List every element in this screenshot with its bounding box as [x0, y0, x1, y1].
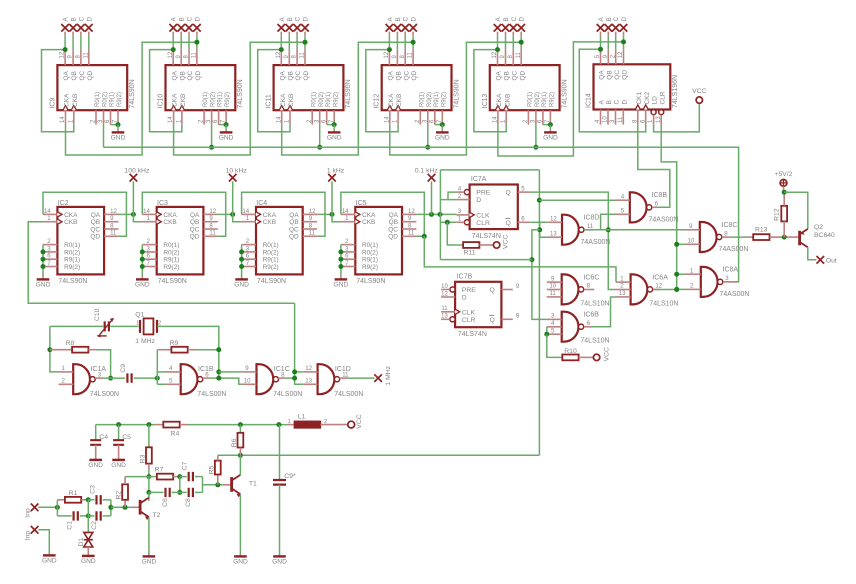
wire IC10 pin12 to connector	[172, 35, 174, 49]
wire IC8D output to IC8B.5 and IC8C.9	[584, 229, 685, 231]
junction R7-C7 node	[177, 474, 182, 479]
svg-text:QC: QC	[403, 70, 410, 80]
svg-text:74LS196N: 74LS196N	[672, 75, 679, 108]
ground IC12	[435, 125, 450, 142]
connector IC13-A	[494, 17, 502, 36]
svg-text:QD: QD	[411, 70, 418, 80]
nand gate IC8D 74AS00N	[547, 215, 610, 246]
svg-text:12: 12	[441, 291, 448, 297]
svg-text:13: 13	[441, 314, 448, 320]
wire C8 to base link	[203, 485, 214, 493]
svg-text:74AS00N: 74AS00N	[581, 239, 611, 246]
wire IC1C-IC1D feed riser from IC2 CKB	[295, 303, 304, 384]
junction input node	[55, 505, 60, 510]
svg-text:QC: QC	[187, 70, 194, 80]
nand gate IC6A 74LS10N	[616, 274, 679, 307]
ground IC13	[543, 125, 558, 142]
capacitor C4	[90, 425, 108, 460]
svg-text:6: 6	[521, 216, 525, 223]
svg-text:GND: GND	[88, 462, 103, 469]
svg-text:0.1 kHz: 0.1 kHz	[415, 168, 439, 175]
wire oscillator top link	[50, 325, 103, 327]
junction IC14 QD	[621, 39, 626, 44]
svg-text:D1: D1	[78, 538, 85, 547]
svg-text:R1: R1	[69, 490, 78, 497]
wire IC9 pin12 to connector	[64, 35, 66, 49]
wire IC7A Q to gates	[530, 192, 616, 289]
svg-text:R9(1): R9(1)	[110, 92, 116, 107]
wire IC4 reset pins tie	[241, 245, 243, 276]
svg-text:VCC: VCC	[692, 88, 706, 95]
svg-text:CKA: CKA	[496, 93, 503, 107]
wire C7 to base link	[202, 477, 204, 485]
wire IC11 pin12 to connector	[280, 35, 282, 49]
wire IC5 QD to IC6A input 1	[424, 236, 616, 282]
svg-text:11: 11	[83, 52, 89, 59]
svg-text:PRE: PRE	[462, 287, 476, 294]
svg-text:D: D	[411, 17, 418, 22]
junction IC9 QA	[63, 47, 68, 52]
wire IC5 QA output to IC7A CLK	[416, 213, 456, 215]
junction IC6A output net	[674, 287, 679, 292]
junction IC4 QA tap	[330, 212, 335, 217]
svg-text:R0(2): R0(2)	[263, 249, 279, 256]
svg-text:PRE: PRE	[476, 190, 490, 197]
wire T1 emitter to ground	[239, 495, 241, 553]
wire IC7A PRE-D tie	[448, 192, 456, 200]
svg-text:BC640: BC640	[814, 232, 835, 239]
svg-text:CKB: CKB	[396, 94, 403, 107]
wire IC13 pin3 to reset bus	[535, 125, 537, 148]
resistor R4	[156, 422, 187, 438]
svg-text:CKB: CKB	[288, 94, 295, 107]
wire IC11 pin3 to reset bus	[319, 125, 321, 148]
svg-text:C6: C6	[162, 498, 169, 507]
svg-text:QA: QA	[599, 70, 606, 80]
svg-text:A: A	[171, 17, 178, 22]
svg-text:IC6C: IC6C	[583, 274, 599, 281]
wire IC11 QD to IC10 CKA	[174, 42, 305, 155]
ground IC11	[327, 125, 342, 142]
svg-text:3: 3	[725, 275, 729, 282]
svg-text:IC1D: IC1D	[335, 366, 351, 373]
junction Q net at IC8D output row	[606, 227, 611, 232]
nand gate IC1A 74LS00N	[59, 364, 120, 398]
junction IC4 pin6	[239, 257, 244, 262]
svg-text:R0(1): R0(1)	[263, 242, 279, 249]
ground T2	[142, 553, 157, 565]
wire Q1 to right rail	[158, 326, 219, 378]
capacitor C10 trimmer	[94, 308, 114, 337]
connector IC12-D	[409, 17, 417, 36]
svg-text:C3: C3	[89, 485, 96, 494]
wire IC11 pin9 to connector	[288, 35, 290, 49]
svg-text:+5V/2: +5V/2	[775, 171, 793, 178]
svg-text:GND: GND	[233, 558, 248, 565]
wire IC2 QD to CKA feedback	[43, 192, 126, 236]
svg-text:R0(1): R0(1)	[163, 242, 179, 249]
svg-text:C: C	[187, 17, 194, 22]
junction IC6B input 5	[544, 332, 549, 337]
svg-text:100 kHz: 100 kHz	[124, 168, 150, 175]
svg-text:CKA: CKA	[280, 93, 287, 107]
junction IC5 pin7	[338, 264, 343, 269]
connector IC14-D	[620, 17, 628, 36]
svg-text:14: 14	[384, 116, 390, 123]
connector IC12-C	[401, 17, 409, 36]
junction IC10 pin7	[224, 122, 229, 127]
svg-text:74LS00N: 74LS00N	[334, 391, 363, 398]
svg-text:GND: GND	[36, 281, 51, 288]
wire reset bus from IC9 pin3 to IC8A output	[104, 147, 739, 282]
wire IC11 pin8 to connector	[296, 35, 298, 49]
svg-text:74LS90N: 74LS90N	[561, 79, 568, 108]
junction IC3 pin7	[140, 264, 145, 269]
svg-text:GND: GND	[234, 281, 249, 288]
svg-text:A: A	[387, 17, 394, 22]
svg-text:IC10: IC10	[158, 94, 165, 109]
svg-text:B: B	[71, 17, 78, 21]
svg-text:QC: QC	[190, 226, 200, 233]
connector IC12-A	[386, 17, 394, 36]
svg-text:14: 14	[276, 116, 282, 123]
wire IC10 pin8 to connector	[188, 35, 190, 49]
svg-text:T1: T1	[249, 480, 257, 487]
svg-text:QD: QD	[90, 234, 100, 241]
junction IC5 pin3	[338, 249, 343, 254]
svg-text:10 kHz: 10 kHz	[226, 168, 248, 175]
svg-text:12: 12	[276, 51, 282, 58]
capacitor C5	[113, 425, 131, 460]
junction collector node C6-C8	[177, 490, 182, 495]
svg-text:QC: QC	[289, 226, 299, 233]
svg-text:R12: R12	[774, 208, 781, 221]
svg-text:CLR: CLR	[476, 220, 490, 227]
svg-text:QB: QB	[71, 71, 78, 80]
svg-text:GND: GND	[435, 134, 450, 141]
wire IC2 QA to IC3 CKB	[133, 214, 142, 221]
svg-text:QA: QA	[190, 212, 200, 219]
connector IC9-C	[77, 17, 85, 36]
svg-text:12: 12	[655, 283, 662, 290]
junction IC1C output node	[292, 376, 297, 381]
wire T2 collector node	[148, 477, 150, 501]
power VCC R10	[593, 347, 610, 361]
wire IC14 pin12 to connector	[623, 35, 625, 49]
svg-text:VCC: VCC	[503, 235, 510, 249]
junction IC4 pin7	[239, 264, 244, 269]
svg-text:B: B	[503, 17, 510, 21]
wire IC9 pin9 to connector	[72, 35, 74, 49]
connector IC9-B	[69, 17, 77, 35]
svg-text:QD: QD	[388, 234, 398, 241]
wire rail to IC1C input 9	[219, 371, 242, 373]
junction mid node bottom	[86, 513, 91, 518]
svg-text:A: A	[495, 17, 502, 22]
junction IC13 QD	[519, 40, 524, 45]
svg-text:11: 11	[192, 52, 198, 59]
junction rail R6	[238, 422, 243, 427]
wire network output to T2 base	[111, 506, 131, 508]
svg-text:A: A	[599, 100, 606, 105]
svg-text:CKB: CKB	[163, 219, 176, 226]
svg-text:CKA: CKA	[172, 93, 179, 107]
svg-text:QC: QC	[79, 70, 86, 80]
junction rail to IC1C.9	[216, 369, 221, 374]
capacitor C3	[88, 485, 111, 505]
power VCC IC14	[692, 88, 706, 103]
svg-text:C: C	[511, 17, 518, 22]
wire IC13 pin12 to connector	[497, 35, 499, 49]
wire IC4 QA to IC5 CKB	[332, 214, 341, 221]
wire IC14 pin2 to connector	[615, 35, 617, 49]
svg-text:C: C	[613, 17, 620, 22]
svg-text:QC: QC	[511, 70, 518, 80]
junction common node	[529, 257, 534, 262]
resistor R2	[116, 477, 128, 508]
svg-text:QB: QB	[396, 71, 403, 80]
svg-text:QB: QB	[606, 70, 613, 79]
wire IC10 QD to IC9 CKA	[66, 42, 197, 155]
counter IC13 74LS90N	[482, 50, 569, 125]
ground C9*	[272, 553, 287, 565]
svg-text:11: 11	[300, 52, 306, 59]
svg-text:R0(1): R0(1)	[419, 92, 425, 107]
svg-text:QB: QB	[287, 71, 294, 80]
counter IC11 74LS90N	[266, 50, 353, 125]
svg-text:D: D	[476, 197, 481, 204]
wire IC4 QA output	[317, 213, 332, 215]
wire IC1A output to C9	[103, 377, 125, 379]
svg-text:8: 8	[724, 230, 728, 237]
svg-text:74LS00N: 74LS00N	[197, 391, 226, 398]
svg-text:QD: QD	[87, 70, 94, 80]
junction T2 collector	[146, 490, 151, 495]
junction rail C5	[116, 422, 121, 427]
junction reset bus IC10	[209, 145, 214, 150]
wire IC14 CLR from IC6A output	[653, 125, 677, 290]
junction IC3 pin3	[140, 249, 145, 254]
svg-text:B: B	[606, 17, 613, 21]
svg-text:Q: Q	[490, 317, 495, 324]
svg-text:R0(2): R0(2)	[427, 92, 433, 107]
svg-text:C4: C4	[99, 434, 108, 441]
counter IC9 74LS90N	[49, 50, 136, 125]
svg-text:CK2: CK2	[644, 91, 651, 104]
svg-text:C1: C1	[66, 521, 73, 530]
power VCC L1	[348, 414, 363, 428]
wire C10 to Q1	[110, 325, 138, 327]
svg-text:T2: T2	[153, 512, 161, 519]
junction IC2 pin6	[41, 257, 46, 262]
svg-text:CLK: CLK	[476, 212, 490, 219]
inductor L1	[288, 414, 348, 428]
transistor Q2 BC640	[800, 224, 835, 247]
wire tap 1 kHz	[331, 181, 333, 214]
svg-text:R9(2): R9(2)	[225, 92, 231, 107]
svg-text:Q2: Q2	[814, 224, 823, 231]
wire to IC8B input 4	[539, 199, 616, 201]
svg-text:R9(2): R9(2)	[333, 92, 339, 107]
svg-text:12: 12	[309, 208, 316, 215]
svg-text:IC3: IC3	[157, 200, 168, 207]
svg-text:1 MHz: 1 MHz	[385, 365, 392, 385]
wire IC14 QD to IC13 CKA	[498, 42, 624, 156]
nand gate IC8A 74AS00N	[686, 267, 749, 298]
svg-text:R0(1): R0(1)	[95, 92, 101, 107]
junction IC11 pin7	[332, 122, 337, 127]
svg-text:D: D	[621, 17, 628, 22]
resistor R12	[774, 192, 787, 237]
counter IC3 74LS90N	[142, 200, 218, 285]
svg-text:IC2: IC2	[58, 200, 69, 207]
svg-text:5: 5	[621, 208, 625, 215]
junction Q2 base node	[782, 235, 787, 240]
svg-text:IC1B: IC1B	[198, 366, 214, 373]
wire IC10 pin9 to connector	[180, 35, 182, 49]
svg-text:14: 14	[242, 208, 249, 215]
svg-text:R0(1): R0(1)	[203, 92, 209, 107]
svg-text:11: 11	[309, 230, 316, 237]
svg-text:12: 12	[305, 365, 312, 372]
junction R5 bottom	[215, 482, 220, 487]
svg-text:CKB: CKB	[504, 94, 511, 107]
svg-text:A: A	[63, 17, 70, 22]
svg-text:R7: R7	[155, 467, 164, 474]
svg-text:R9: R9	[170, 340, 179, 347]
svg-text:11: 11	[618, 116, 624, 123]
svg-text:Q: Q	[506, 220, 511, 227]
svg-text:C: C	[403, 17, 410, 22]
wire CLR to R11	[447, 222, 463, 245]
wire IC12 pin11 to connector	[412, 35, 414, 49]
connector 0.1 kHz	[415, 168, 439, 182]
junction IC11 QA	[279, 47, 284, 52]
junction reset bus IC12	[425, 145, 430, 150]
junction IC1A output	[108, 376, 113, 381]
svg-text:R9(1): R9(1)	[542, 92, 548, 107]
wire tap 0.1 kHz	[431, 181, 433, 214]
wire amplifier signal riser	[538, 170, 540, 455]
svg-text:IC6B: IC6B	[583, 312, 599, 319]
svg-text:CLK: CLK	[462, 309, 476, 316]
wire IC1C output to IC1D inputs	[286, 377, 295, 379]
svg-text:CKB: CKB	[72, 94, 79, 107]
svg-text:CKA: CKA	[388, 93, 395, 107]
svg-text:GND: GND	[111, 134, 126, 141]
svg-text:14: 14	[143, 208, 150, 215]
connector 10 kHz	[226, 168, 248, 182]
junction IC5 pin6	[338, 257, 343, 262]
svg-text:LD: LD	[652, 96, 659, 105]
svg-text:C9*: C9*	[284, 473, 296, 480]
svg-text:R0(2): R0(2)	[163, 249, 179, 256]
wire R8 to IC1A output node	[95, 350, 110, 378]
svg-text:C9: C9	[120, 364, 127, 373]
wire IC10 R9 pins 6-7	[219, 124, 227, 126]
ground C4	[88, 460, 103, 469]
svg-text:1: 1	[288, 419, 291, 425]
svg-text:CKB: CKB	[263, 219, 276, 226]
svg-text:VCC: VCC	[356, 414, 363, 428]
power VCC R11	[493, 235, 509, 249]
nand gate IC8C 74AS00N	[685, 222, 753, 253]
resistor R10	[562, 348, 593, 360]
connector IC13-B	[502, 17, 510, 35]
svg-text:R9(2): R9(2)	[64, 264, 80, 271]
junction IC2 pin3	[41, 249, 46, 254]
junction rail C9*	[276, 422, 281, 427]
counter IC10 74LS90N	[158, 50, 245, 125]
svg-text:QD: QD	[190, 234, 200, 241]
wire IC2 reset pins tie	[42, 245, 44, 276]
svg-text:QC: QC	[388, 226, 398, 233]
svg-text:R4: R4	[171, 430, 180, 437]
wire output column	[110, 500, 112, 516]
svg-text:GND: GND	[334, 281, 349, 288]
svg-text:D: D	[519, 17, 526, 22]
wire IC1B output	[210, 378, 242, 384]
wire R13 to Q2 base	[784, 236, 798, 238]
wire IC8D input feed	[532, 230, 547, 320]
connector IC12-B	[394, 17, 402, 35]
svg-text:R0(2): R0(2)	[362, 249, 378, 256]
svg-text:74LS90N: 74LS90N	[237, 79, 244, 108]
wire IC14 LD to VCC	[654, 103, 700, 132]
svg-text:R2: R2	[116, 491, 123, 500]
svg-text:R0(1): R0(1)	[528, 92, 534, 107]
wire IC14 pin5 to connector	[600, 35, 602, 49]
svg-text:IC7A: IC7A	[471, 176, 487, 183]
svg-text:14: 14	[493, 116, 499, 123]
svg-text:R8: R8	[66, 340, 75, 347]
wire IC5 QD to CKA feedback	[341, 192, 424, 236]
wire IC13 QD to IC12 CKA	[390, 42, 521, 155]
svg-text:12: 12	[618, 51, 624, 58]
resistor R5	[208, 455, 220, 485]
svg-text:Q: Q	[490, 287, 495, 294]
svg-text:13: 13	[619, 290, 626, 297]
junction IC2 QA tap	[131, 212, 136, 217]
resistor R8	[50, 340, 96, 353]
svg-text:1: 1	[136, 321, 139, 327]
resistor R9	[157, 340, 195, 353]
svg-text:5: 5	[521, 185, 525, 192]
svg-text:74LS90N: 74LS90N	[345, 79, 352, 108]
svg-text:B: B	[606, 100, 613, 104]
resistor R3	[139, 425, 151, 470]
wire T2 collector	[148, 492, 150, 497]
svg-text:R9(2): R9(2)	[163, 264, 179, 271]
svg-text:QA: QA	[389, 212, 399, 219]
svg-text:74LS90N: 74LS90N	[453, 79, 460, 108]
svg-text:CK1: CK1	[636, 91, 643, 104]
wire Inp ground	[38, 530, 49, 553]
svg-text:QA: QA	[496, 70, 503, 80]
connector 1 MHz	[374, 365, 392, 385]
nand gate IC8B 74AS00N	[616, 192, 678, 223]
svg-text:QA: QA	[279, 70, 286, 80]
wire IC3 QA output	[218, 213, 233, 215]
svg-text:A: A	[279, 17, 286, 22]
resistor R13	[753, 227, 784, 240]
wire IC12 R9 pins 6-7	[435, 124, 443, 126]
connector IC11-A	[278, 17, 286, 36]
svg-text:IC4: IC4	[256, 200, 267, 207]
wire input net top link	[440, 169, 539, 171]
nand gate IC1B 74LS00N	[166, 364, 227, 398]
svg-text:R0(1): R0(1)	[64, 242, 80, 249]
